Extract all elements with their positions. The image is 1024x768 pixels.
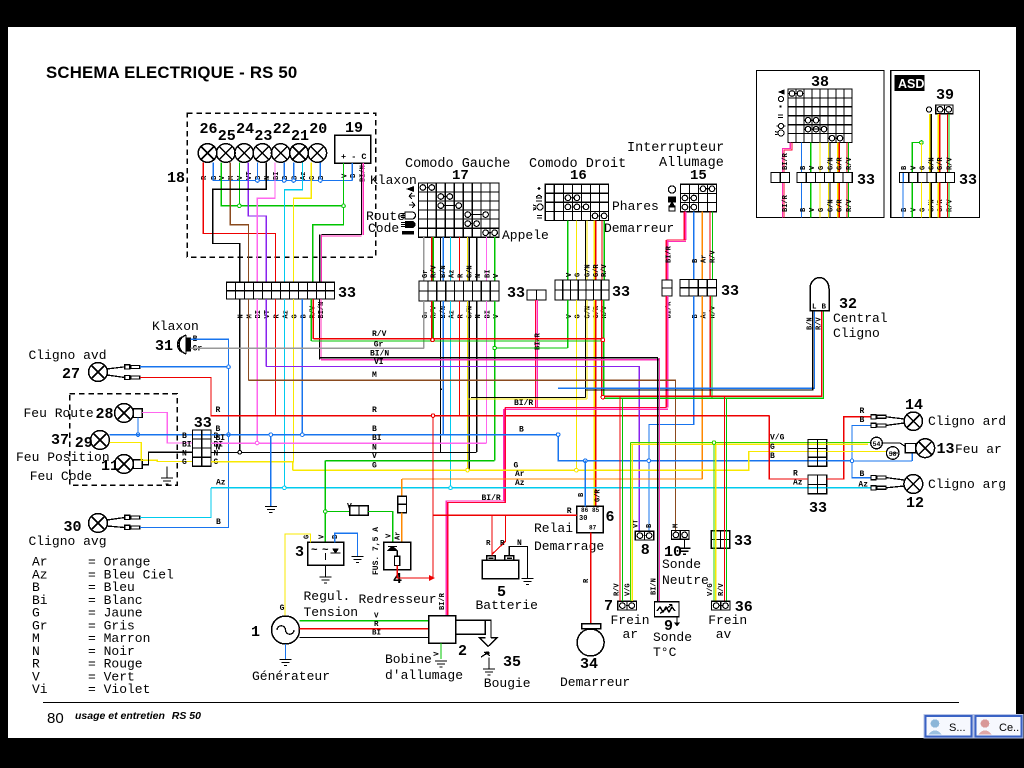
svg-text:av: av (716, 627, 732, 642)
bulb 25 (217, 144, 236, 163)
wire R bulb26 to 33 (203, 163, 275, 283)
svg-text:87: 87 (589, 525, 597, 532)
svg-text:B: B (216, 425, 221, 434)
wire B bus of bulbs (213, 163, 352, 181)
svg-text:BI: BI (255, 310, 263, 318)
wire B regulator to ground (335, 533, 358, 556)
box 38 frame (757, 71, 885, 218)
ground (B bus) (265, 507, 277, 513)
wire B feu ar riser (911, 453, 913, 461)
node junction N 18 (238, 450, 242, 454)
wire B from box19 (351, 163, 353, 181)
svg-text:R/V: R/V (710, 250, 718, 263)
leads bulb 14 (886, 417, 904, 426)
svg-text:G/R: G/R (837, 199, 845, 212)
wire BI/R bus pink (505, 408, 668, 410)
node junction G 17 (466, 468, 470, 472)
ignition switch connector 15 (680, 184, 716, 212)
node junction B 28 (136, 433, 140, 437)
svg-text:R/V: R/V (815, 317, 823, 330)
wire BI/R drop from 2-way (536, 300, 538, 408)
svg-text:N: N (517, 539, 522, 548)
wire BI/R 15 drop (666, 296, 668, 408)
svg-text:N: N (182, 449, 187, 458)
wire R/V red 17 drop (431, 301, 433, 341)
wire V box19 to 33 (313, 163, 344, 282)
svg-text:G/R: G/R (595, 489, 603, 502)
svg-text:33: 33 (721, 283, 739, 300)
connector 2-way (BI/R) (527, 290, 546, 300)
svg-text:ASD: ASD (898, 77, 924, 91)
svg-text:Neutre: Neutre (662, 573, 709, 588)
svg-text:N: N (475, 274, 483, 278)
bulb 22 (271, 144, 290, 163)
connector 1x2 (BI/R) (662, 280, 672, 296)
svg-text:33: 33 (857, 172, 875, 189)
svg-text:V/G: V/G (770, 434, 785, 443)
wire G/N 38 lower (829, 183, 831, 218)
svg-text:Tension: Tension (304, 605, 359, 620)
svg-text:usage et entretien RS 50: usage et entretien RS 50 (75, 710, 201, 722)
svg-text:21: 21 (291, 128, 309, 145)
wire G/N yellow 17 drop (467, 301, 469, 470)
bulb 23 (253, 144, 272, 163)
wire G/N 16 to 33 (586, 221, 588, 281)
wire B to junction right (827, 460, 852, 462)
wire B drop (319, 163, 321, 181)
svg-text:R/V: R/V (431, 265, 439, 278)
wire G/N 39 lower (930, 183, 932, 218)
ground (generator) (280, 660, 292, 666)
wire B generator to ground (285, 644, 287, 659)
wire R/V green to frein ar (621, 399, 623, 601)
bulb 12 cligno arg (904, 475, 923, 494)
ground (bobine) (435, 661, 447, 667)
wire B cligno avg (140, 435, 229, 528)
svg-text:N: N (216, 444, 221, 453)
ground (battery) (522, 579, 534, 585)
svg-text:23: 23 (254, 128, 272, 145)
wire BI/R 15 jog (666, 240, 686, 242)
icons 15 (668, 186, 675, 211)
wire G/N 17 to 33 (468, 237, 470, 281)
wire Gr 17-33 to klaxon line (423, 301, 425, 348)
wire G/R 38 lower (838, 183, 840, 218)
box 39 frame (891, 71, 980, 218)
bulb 28 feu route (115, 404, 134, 423)
wire R to battery + (491, 515, 493, 555)
connector 33 (39) (900, 173, 955, 183)
wire V/G yellow to frein av (715, 444, 717, 601)
svg-text:N: N (264, 176, 272, 180)
wire B drop (256, 163, 258, 181)
svg-text:11: 11 (101, 458, 119, 475)
svg-text:31: 31 (155, 338, 173, 355)
connector 10 (672, 531, 690, 540)
terminal 12 Az (871, 486, 886, 490)
wire R 33-18 to R bus (274, 299, 276, 416)
wire Gr klaxon to 17 (191, 347, 424, 349)
svg-text:26: 26 (200, 121, 218, 138)
svg-text:Gr: Gr (422, 270, 430, 278)
svg-text:B: B (860, 416, 865, 425)
wire B cligno avd (140, 366, 229, 368)
svg-text:R/V: R/V (846, 157, 854, 170)
wire BI/N from box19 (362, 163, 364, 235)
wire BI 17 to 33 (485, 237, 487, 281)
svg-text:G/N: G/N (466, 265, 474, 278)
svg-text:G: G (818, 166, 826, 170)
bulb 13 feu ar (916, 439, 935, 458)
wire B to cligno arg (852, 461, 871, 478)
wire Az 17 to 33 (450, 237, 452, 281)
wire Az cligno avg (140, 488, 211, 518)
svg-text:G: G (575, 273, 583, 277)
svg-text:Code: Code (368, 221, 399, 236)
svg-text:R: R (793, 470, 798, 479)
wire R/V bus green (311, 340, 604, 342)
ASD badge (895, 75, 925, 91)
icon 39 (926, 107, 931, 112)
starter motor 34 (577, 624, 604, 656)
svg-text:BI/R: BI/R (782, 152, 790, 170)
svg-text:R/V: R/V (601, 264, 609, 277)
node junction B bus klaxon (227, 433, 231, 437)
terminal 14 B (871, 423, 886, 427)
node B junction (292, 179, 296, 183)
svg-text:Cligno arg: Cligno arg (928, 477, 1006, 492)
connector 33a (38) (771, 173, 790, 183)
svg-text:Central: Central (833, 311, 888, 326)
svg-text:d'allumage: d'allumage (385, 668, 463, 683)
svg-text:37: 37 (51, 432, 69, 449)
svg-text:33: 33 (959, 172, 977, 189)
bulb 26 (198, 144, 217, 163)
ground (regulator) (320, 577, 332, 583)
wire G 39 lower (920, 183, 922, 218)
wire N bulb23 to 33 (213, 163, 266, 283)
fuse (V line) (350, 506, 369, 516)
wire R 17 to 33 (458, 237, 460, 281)
svg-text:V/G: V/G (625, 583, 633, 596)
terminal 30 B (125, 525, 140, 529)
wire R/V 39 (948, 114, 950, 173)
svg-text:G/R: G/R (593, 264, 601, 277)
node R redresseur arrow (429, 575, 435, 581)
wire R battery diagonal (492, 515, 506, 554)
svg-text:19: 19 (345, 120, 363, 137)
wire BI/R bus red (505, 407, 666, 409)
svg-text:Ar: Ar (395, 532, 403, 540)
wire R/V red 16 drop (601, 300, 603, 396)
wire BI/N bus pink (321, 359, 659, 361)
node junction Az 18 (283, 486, 287, 490)
svg-text:54: 54 (873, 441, 881, 448)
wire BI bulb22 to 33 (257, 163, 275, 283)
wire V/G bus green (630, 442, 826, 444)
wire G/N yellow west link (468, 398, 587, 400)
wire V drop (238, 163, 240, 206)
node junction R/V 16 (601, 338, 605, 342)
node junction B corner (556, 433, 560, 437)
wire R/V 16 to 33 (602, 221, 604, 281)
svg-text:R: R (216, 406, 221, 415)
wire regulator internal (325, 553, 327, 560)
wire B to relay (584, 461, 586, 507)
taskbar button Ce... (974, 715, 1023, 739)
svg-text:Vi: Vi (32, 682, 48, 697)
wire R/V 17 to 33 (432, 237, 434, 281)
wire G/N black 16 drop (585, 300, 587, 397)
wire N 17 to 33 (476, 237, 478, 281)
svg-text:L: L (812, 304, 817, 312)
wire G/R 16 to 33 (594, 221, 596, 281)
wire Az 17 drop (450, 301, 452, 488)
wire B to feu ar (852, 460, 912, 462)
svg-text:1: 1 (251, 624, 260, 641)
wire BI/R into 1x2 (666, 240, 668, 280)
wire V 38 lower (810, 183, 812, 218)
wire V fuse to redresseur (368, 512, 393, 543)
wire VT 33-18 to VI bus (265, 299, 267, 366)
svg-text:39: 39 (936, 87, 954, 104)
wire BI 33-18 to BI bus (256, 299, 258, 443)
svg-text:Ce..: Ce.. (999, 722, 1019, 734)
bulb 20 (308, 144, 327, 163)
leads bulb 12 (886, 478, 904, 488)
svg-text:ar: ar (623, 627, 639, 642)
svg-text:BI: BI (182, 440, 192, 449)
connector 33 (rear lights B) (808, 475, 827, 494)
node junction R drop (431, 414, 435, 418)
wire B klaxon down (191, 339, 229, 434)
connector 33 (below 15) (680, 280, 716, 297)
wire G bulb20 to 33 (293, 163, 311, 283)
svg-text:Feu Route: Feu Route (24, 406, 94, 421)
node junction B relay (584, 459, 588, 463)
svg-text:T°C: T°C (653, 645, 677, 660)
svg-text:Frein: Frein (708, 613, 747, 628)
svg-text:Az: Az (300, 172, 308, 180)
terminal 14 R (871, 415, 886, 419)
svg-text:~: ~ (311, 545, 318, 557)
lamp holder 58 (886, 447, 899, 460)
wire B 33-18 to B bus (301, 299, 303, 435)
svg-text:13: 13 (937, 441, 955, 458)
wire regulator ground lead (325, 565, 327, 577)
wire B/N bus black (585, 311, 812, 390)
wire B drop (293, 163, 295, 181)
svg-text:M: M (673, 524, 681, 528)
icons comodo gauche (401, 186, 416, 234)
wire R/V 39 lower (948, 183, 950, 218)
node V junction 17 (493, 346, 497, 350)
svg-text:V: V (372, 452, 377, 461)
leads bulb 27 (107, 367, 125, 378)
svg-text:G: G (291, 314, 299, 318)
svg-text:S...: S... (949, 722, 966, 734)
wire G/R 38 upper (838, 143, 840, 173)
node junction B 18 (301, 433, 305, 437)
svg-text:Interrupteur: Interrupteur (627, 141, 724, 156)
wire Az bus (211, 487, 827, 489)
svg-text:8: 8 (641, 542, 650, 559)
wire V 39 lower (911, 183, 913, 218)
diode symbol regulator (331, 549, 341, 553)
svg-text:25: 25 (218, 128, 236, 145)
wire R/V red to frein av (724, 396, 726, 601)
bulb 21 (290, 144, 309, 163)
wire G bus west (211, 461, 293, 463)
sonde T°C 9 (thermistor) (655, 602, 680, 617)
ground arrow sonde 9 (674, 623, 680, 627)
svg-text:= Violet: = Violet (88, 682, 150, 697)
svg-text:N: N (238, 314, 246, 318)
svg-text:24: 24 (236, 121, 254, 138)
svg-text:Cligno avd: Cligno avd (29, 348, 107, 363)
svg-text:R/V: R/V (614, 583, 622, 596)
wire B 38 upper (801, 143, 803, 173)
wire R redresseur out (397, 565, 429, 578)
svg-text:R/V: R/V (718, 583, 726, 596)
wire V generator to bobine (300, 620, 429, 622)
bulb 27 cligno avd (89, 363, 108, 382)
wire N bus (211, 451, 477, 453)
wire BI/N box19 drop v (320, 234, 322, 282)
wire G/N black west link (471, 396, 586, 398)
svg-text:Demarreur: Demarreur (604, 221, 674, 236)
wire G 16 to 33 (575, 221, 577, 281)
wire R to cligno ard (827, 417, 871, 479)
wire BI/N bus black (320, 357, 658, 359)
svg-text:Az: Az (858, 480, 868, 489)
terminal 30 Az (125, 515, 140, 519)
svg-text:B: B (822, 304, 827, 312)
svg-text:R: R (860, 407, 865, 416)
wire G 33-18 to G bus (292, 299, 295, 470)
svg-text:VT: VT (633, 520, 641, 528)
wire R/V red 15 drop (709, 296, 711, 397)
wire R/V 38 lower (847, 183, 849, 218)
wire V/G to frein ar (629, 443, 631, 602)
wire V bus of bulbs (221, 163, 343, 206)
svg-text:R/V: R/V (846, 199, 854, 212)
fuse FUS 7,5A (Ar line) (398, 496, 407, 512)
legend wire colour codes (32, 555, 174, 698)
wire BI/R to bobine pink (446, 409, 504, 615)
svg-text:Cligno ard: Cligno ard (928, 414, 1006, 429)
bulb 11 feu code (115, 455, 134, 474)
node junction B conn8 (647, 459, 651, 463)
node junction G 16 (575, 468, 579, 472)
ground (sonde neutre) (679, 548, 691, 554)
svg-text:SCHEMA ELECTRIQUE - RS 50: SCHEMA ELECTRIQUE - RS 50 (46, 63, 297, 82)
wire G/N yellow 16 drop (586, 300, 588, 399)
bulb 24 (235, 144, 254, 163)
wire Ar 15 to 33 (701, 212, 703, 280)
wire G 16 drop to G bus (575, 300, 577, 470)
wire R/V green 15 drop (711, 296, 713, 399)
svg-text:Az: Az (449, 270, 457, 278)
svg-text:33: 33 (194, 415, 212, 432)
svg-text:G: G (214, 458, 219, 467)
svg-text:BI/R: BI/R (439, 592, 447, 610)
wire BI/N box19 jog (321, 234, 361, 236)
connector 18 dashed enclosure (187, 113, 376, 257)
wire Ar 15 drop to Ar bus (701, 296, 703, 479)
svg-text:Sonde: Sonde (662, 557, 701, 572)
terminal 12 B (871, 476, 886, 480)
svg-text:B: B (216, 518, 221, 527)
ignition coil 2 bobine (429, 616, 456, 644)
wire G/R red 39 (939, 114, 941, 173)
wire R/V east green (604, 311, 824, 399)
svg-text:B/N: B/N (440, 306, 448, 319)
wire M bulb25 to 33 (230, 163, 248, 283)
wire R/V green to frein av (726, 398, 728, 601)
node V/G junction 39 (920, 141, 924, 145)
svg-text:17: 17 (452, 168, 469, 184)
wire R relay to demarreur (590, 533, 592, 624)
svg-text:Sonde: Sonde (653, 630, 692, 645)
wire BI bus (211, 442, 486, 444)
wire B 39 lower (902, 183, 904, 218)
wire V 38 upper (810, 143, 812, 173)
svg-text:35: 35 (503, 654, 521, 671)
node junction B ground (269, 433, 273, 437)
svg-text:FUS. 7,5 A: FUS. 7,5 A (372, 527, 381, 575)
horn klaxon 31 (178, 335, 191, 354)
wire N 17 drop (476, 301, 478, 452)
svg-text:BI/N: BI/N (650, 578, 658, 595)
svg-text:Klaxon: Klaxon (152, 319, 199, 334)
wire B bus to ground (270, 435, 272, 507)
wire R/V red to frein ar (619, 397, 621, 601)
svg-text:22: 22 (273, 121, 291, 138)
svg-text:33: 33 (507, 285, 525, 302)
wire R/V 15 to 33 (710, 212, 712, 280)
connector 33 (front lights) (193, 430, 212, 466)
wire R to relay 30 (433, 514, 577, 516)
svg-text:BI: BI (372, 630, 381, 638)
svg-text:G/R: G/R (937, 157, 945, 170)
svg-text:G: G (182, 458, 187, 467)
svg-text:Feu Code: Feu Code (30, 469, 92, 484)
svg-text:Bougie: Bougie (484, 676, 531, 691)
svg-text:Regul.: Regul. (304, 589, 351, 604)
svg-text:BI/R: BI/R (482, 494, 501, 503)
svg-text:Frein: Frein (611, 613, 650, 628)
wire V link 17-16 (495, 347, 568, 349)
wire BI/N 33-18 down (320, 299, 322, 360)
connector 38 grid (788, 89, 852, 143)
wire G feu position (109, 443, 192, 462)
svg-text:Cligno: Cligno (833, 326, 880, 341)
wire G/N 38 upper (829, 143, 831, 173)
svg-text:15: 15 (690, 168, 707, 184)
wire BI feu route (142, 413, 192, 444)
svg-text:+ - C: + - C (341, 152, 367, 162)
svg-text:B/N: B/N (440, 265, 448, 278)
box 19 (+ - C) (335, 135, 371, 163)
wire R 17 drop (458, 301, 460, 416)
wire B to cligno ard (852, 425, 871, 460)
wire B feu route drop (137, 417, 139, 434)
node V junction 19 (342, 204, 346, 208)
wire G/R 16 to relay 6 (594, 300, 596, 506)
wire R/V green 16 drop (603, 300, 605, 398)
svg-text:M: M (228, 176, 236, 180)
